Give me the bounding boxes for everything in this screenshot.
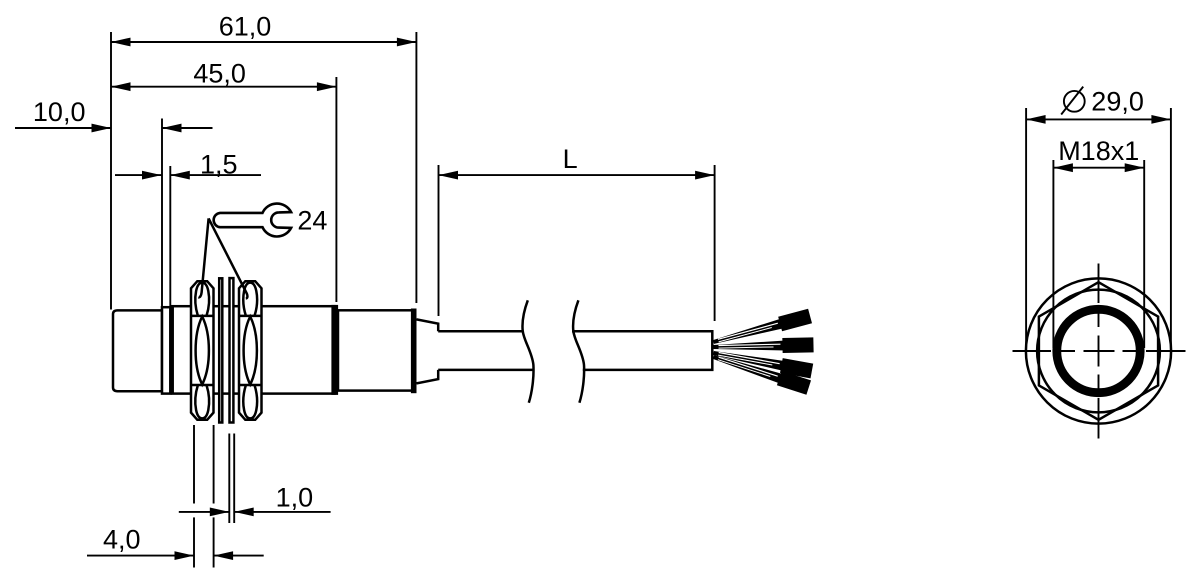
dim 61,0 bbox=[111, 12, 416, 310]
rear end cap thick bar bbox=[411, 309, 417, 394]
sensor sensing face cap bbox=[113, 310, 162, 391]
housing rear section bbox=[338, 310, 413, 390]
cable break curve 1 bbox=[522, 300, 533, 403]
cable gland taper bbox=[417, 319, 439, 383]
hex nut 2 bbox=[239, 281, 262, 420]
wire 3 bbox=[713, 348, 813, 376]
dim 4,0 bbox=[87, 425, 264, 568]
wire 1 bbox=[712, 311, 811, 347]
dim 45,0 bbox=[111, 59, 336, 303]
svg-text:24: 24 bbox=[297, 206, 327, 236]
dim M18x1 bbox=[1053, 136, 1144, 348]
svg-text:10,0: 10,0 bbox=[33, 97, 86, 127]
outer circle (29mm flange) bbox=[1026, 278, 1171, 423]
thread ring M18 bbox=[1057, 309, 1140, 392]
svg-text:L: L bbox=[563, 144, 578, 174]
thread end thick bar bbox=[331, 305, 338, 395]
dim L bbox=[439, 144, 715, 321]
collar ring 1.5mm bbox=[162, 307, 170, 393]
svg-text:45,0: 45,0 bbox=[193, 59, 246, 89]
svg-text:M18x1: M18x1 bbox=[1058, 136, 1139, 166]
svg-text:61,0: 61,0 bbox=[219, 12, 272, 42]
threaded barrel M18 bbox=[172, 306, 335, 393]
dim 1,0 bbox=[179, 434, 331, 524]
svg-text:1,5: 1,5 bbox=[200, 149, 238, 179]
cable left segment bbox=[438, 331, 533, 370]
svg-text:29,0: 29,0 bbox=[1091, 87, 1144, 117]
svg-text:4,0: 4,0 bbox=[103, 525, 141, 555]
cable break curve 2 bbox=[573, 300, 584, 403]
centerline horizontal bbox=[1013, 350, 1186, 352]
lock washer bbox=[219, 278, 222, 422]
wire 4 bbox=[712, 352, 810, 392]
mounting panel bbox=[230, 278, 234, 422]
hex nut 1 bbox=[191, 281, 214, 420]
cable right segment bbox=[572, 331, 712, 370]
leader line to nut 2 bbox=[209, 218, 248, 298]
svg-text:1,0: 1,0 bbox=[276, 482, 314, 512]
dim 10,0 bbox=[15, 97, 213, 307]
centerline vertical bbox=[1098, 264, 1100, 439]
leader line to nut 1 bbox=[198, 218, 208, 297]
wrench symbol bbox=[214, 204, 291, 237]
wire 2 bbox=[713, 340, 813, 352]
dim diameter 29,0 bbox=[1026, 87, 1171, 352]
chamfer circle bbox=[1037, 290, 1160, 413]
barrel start edge line bbox=[171, 307, 174, 394]
dim 1,5 bbox=[115, 149, 261, 307]
hex nut outline bbox=[1039, 282, 1158, 420]
